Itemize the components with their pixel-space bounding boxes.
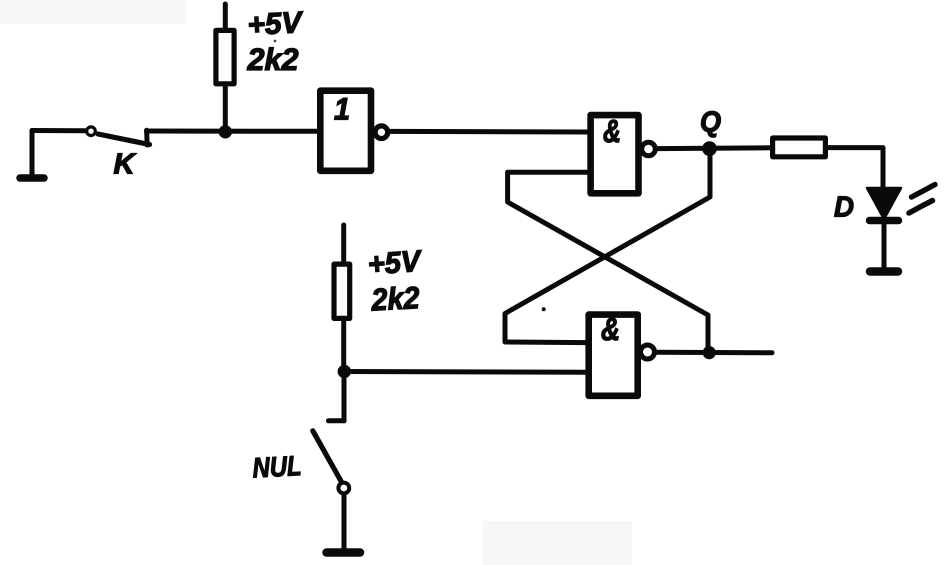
ground bbox=[327, 548, 361, 557]
svg-text:1: 1 bbox=[334, 92, 350, 127]
resistor R2 bbox=[334, 225, 350, 372]
wire bbox=[656, 350, 772, 356]
light rays bbox=[909, 185, 935, 214]
svg-text:NUL: NUL bbox=[252, 450, 303, 484]
node Q bbox=[702, 141, 717, 156]
node junction bbox=[703, 346, 716, 359]
switch NUL bbox=[313, 372, 349, 550]
svg-text:K: K bbox=[114, 149, 137, 181]
svg-text:Q: Q bbox=[700, 107, 721, 139]
svg-text:2k2: 2k2 bbox=[370, 280, 421, 318]
wire bbox=[147, 129, 318, 134]
LED D bbox=[867, 188, 901, 268]
svg-text:2k2: 2k2 bbox=[247, 42, 299, 77]
ground bbox=[20, 131, 44, 179]
svg-text:&: & bbox=[603, 113, 621, 149]
nand gate U1 bbox=[591, 115, 656, 193]
svg-text:+5V: +5V bbox=[247, 6, 306, 42]
resistor R1 bbox=[216, 4, 234, 131]
wire bbox=[656, 145, 770, 151]
wire bbox=[32, 128, 85, 133]
node speck bbox=[542, 307, 546, 311]
wire cross-coupling b bbox=[505, 155, 710, 343]
inverter gate 1 bbox=[320, 91, 387, 171]
wire cross-coupling a bbox=[508, 172, 708, 352]
node junction bbox=[219, 125, 232, 138]
resistor R3 bbox=[773, 138, 826, 157]
node junction bbox=[338, 365, 351, 378]
svg-text:D: D bbox=[834, 192, 854, 224]
ground bbox=[870, 267, 898, 276]
wire bbox=[344, 369, 586, 375]
nand gate U2 bbox=[589, 315, 655, 396]
switch K bbox=[87, 127, 150, 145]
svg-text:+5V: +5V bbox=[367, 245, 425, 282]
svg-text:&: & bbox=[601, 311, 620, 347]
wire bbox=[388, 129, 587, 135]
wire bbox=[828, 148, 883, 191]
